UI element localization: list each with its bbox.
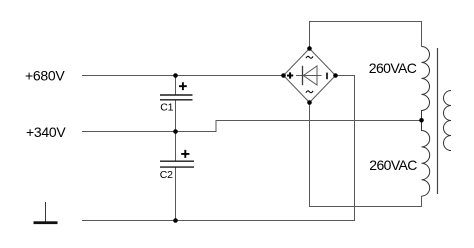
node dot ground/C2 <box>173 218 178 223</box>
wire +680V rail <box>82 75 284 77</box>
node dot rail/C1 <box>173 73 178 78</box>
wire capacitor chain vertical middle <box>175 101 177 161</box>
svg-text:C2: C2 <box>160 169 173 181</box>
wire capacitor chain vertical upper <box>175 76 177 95</box>
wire bridge bottom to transformer bottom <box>310 103 422 207</box>
bridge minus mark <box>326 73 328 80</box>
capacitor C1 <box>160 82 287 113</box>
capacitor C2 <box>160 150 194 181</box>
node dot center tap <box>419 118 424 123</box>
transformer primary upper winding <box>422 47 430 119</box>
node dot bridge right <box>333 73 338 78</box>
bridge diode triangle <box>303 66 317 85</box>
transformer primary lower winding <box>422 123 430 197</box>
node dot rail/C1-C2 <box>173 129 178 134</box>
wire capacitor chain vertical lower <box>175 168 177 221</box>
svg-text:+340V: +340V <box>26 124 66 140</box>
svg-text:260VAC: 260VAC <box>369 157 417 173</box>
bridge plus mark <box>287 72 293 78</box>
svg-text:260VAC: 260VAC <box>369 60 417 76</box>
bridge rectifier diamond <box>284 49 336 103</box>
transformer secondary winding <box>444 91 452 151</box>
wire +340V rail with step <box>82 121 422 132</box>
wire ground rail to bridge minus <box>82 76 355 221</box>
wire bridge top to transformer top <box>310 22 422 49</box>
node dot bridge bottom <box>307 100 312 105</box>
ground symbol <box>34 202 58 224</box>
bridge AC tilde top <box>306 56 313 58</box>
bridge AC tilde bottom <box>306 91 313 93</box>
node dot bridge top <box>307 46 312 51</box>
node dot bridge left <box>281 73 286 78</box>
svg-text:C1: C1 <box>160 101 173 113</box>
bridge diode anode line <box>296 75 322 77</box>
transformer core <box>437 48 439 194</box>
svg-text:+680V: +680V <box>25 68 65 84</box>
bridge diode cathode bar <box>302 66 304 85</box>
